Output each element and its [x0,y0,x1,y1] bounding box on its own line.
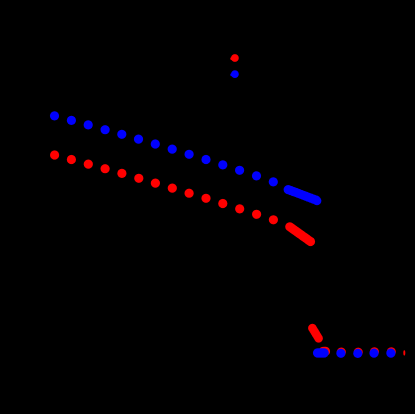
red series point 6 [134,174,143,183]
blue series point 14 [269,177,278,186]
blue series point 8 [168,145,177,154]
blue series point 2 [67,116,76,125]
blue series point 11 [218,160,227,169]
noise floor red point 5 [387,347,396,356]
blue series point 7 [151,139,160,148]
blue series point 1 [50,111,59,120]
red series point 10 [201,194,210,203]
red series point 11 [218,199,227,208]
red series dense streak [285,222,315,246]
red series point 8 [168,184,177,193]
blue series point 4 [101,125,110,134]
noise floor blue point 2 [336,349,345,358]
noise floor red point 3 [354,348,363,357]
noise floor blue capsule [318,348,325,357]
red series point 1 [50,150,59,159]
noise floor red capsule [323,347,325,357]
blue series point 10 [201,155,210,164]
red series point 12 [235,204,244,213]
red series point 4 [101,164,110,173]
red series point 13 [252,210,261,219]
blue series point 5 [117,130,126,139]
blue series point 12 [235,166,244,175]
blue series point 6 [134,135,143,144]
noise floor blue point 4 [369,349,378,358]
blue series dense streak [284,185,322,205]
legend red marker [230,54,239,62]
red series point 14 [269,215,278,224]
red series point 7 [151,179,160,188]
noise floor blue point 3 [353,349,362,358]
noise floor red point 2 [337,348,346,357]
blue series point 3 [84,120,93,129]
blue series point 9 [185,150,194,159]
red series point 3 [84,160,93,169]
red series point 2 [67,155,76,164]
legend blue marker [230,70,239,78]
noise floor red point 4 [370,347,379,356]
noise floor blue point 5 [386,349,395,358]
noise floor clipped red sliver [403,350,405,355]
blue series point 13 [252,171,261,180]
red series point 9 [185,189,194,198]
red series point 5 [117,169,126,178]
red drop streak [308,324,323,343]
